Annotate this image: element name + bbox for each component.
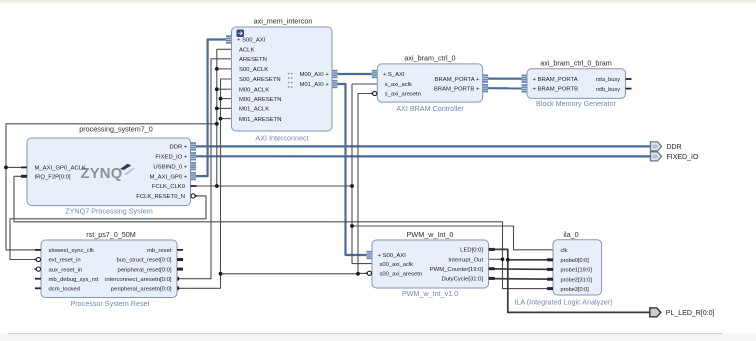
svg-text:ZYNQ: ZYNQ [81,166,123,182]
wire stub M00_ARESETN [221,98,232,100]
pin ARESETN [239,57,267,63]
svg-text:rsta_busy: rsta_busy [596,77,620,83]
wire BRAM_PORTA [488,77,521,79]
pin peripheral_aresetn[0:0] [111,287,172,293]
svg-text:PWM_Counter[19:0]: PWM_Counter[19:0] [430,267,484,273]
pin FCLK_CLK0 [152,184,197,190]
svg-text:M_AXI_GP0 +: M_AXI_GP0 + [149,174,187,180]
junction peripheral_aresetn pin [175,286,180,291]
interface pin M_AXI_GP0 [149,172,196,180]
pin mb_reset [147,248,183,254]
svg-text:ARESETN: ARESETN [239,57,267,63]
junction Interrupt_Out [501,257,505,261]
wire FCLK_CLK0 to ila clk [352,226,553,250]
wire DutyCycle to probe2 [489,278,553,281]
junction M01_ACLK [215,107,219,111]
wire to s_axi_aclk [352,83,377,85]
svg-text:M00_AXI +: M00_AXI + [299,72,329,78]
wire Interrupt_Out stub [489,258,503,260]
wire stub M01_ACLK [217,107,232,109]
pin rstb_busy [596,87,632,93]
junction S00_ACLK [215,67,219,71]
pin IRQ_F2P[0:0] [21,175,71,181]
svg-text:PWM_w_Int_v1.0: PWM_w_Int_v1.0 [402,289,458,298]
wire FCLK_CLK0 mid vertical [351,84,353,264]
wire LED to PL_LED_R [489,249,650,312]
svg-text:FIXED_IO: FIXED_IO [667,154,699,161]
wire stub M01_ARESETN [221,118,232,120]
wire FIXED_IO interface [196,155,651,157]
svg-text:S00_ACLK: S00_ACLK [239,67,268,73]
svg-text:rstb_busy: rstb_busy [596,87,620,93]
svg-text:ila_0: ila_0 [563,230,578,239]
pin clk [561,248,568,254]
svg-text:probe3[0:0]: probe3[0:0] [561,287,590,293]
svg-text:mb_reset: mb_reset [147,248,172,254]
svg-text:aux_reset_in: aux_reset_in [49,267,83,273]
wire to s00_axi_aclk [352,263,372,265]
interface pin DDR [169,142,196,150]
pin s_axi_aclk [385,82,412,88]
svg-text:axi_bram_ctrl_0: axi_bram_ctrl_0 [404,54,455,63]
wire FCLK_RESET0_N to ext_reset_in [10,196,206,260]
svg-text:interconnect_aresetn[0:0]: interconnect_aresetn[0:0] [105,277,172,283]
wire PWM_Counter to probe1 [489,268,553,271]
IP block axi_bram_ctrl_0_bram (Block Memory Generator) [527,59,626,109]
svg-text:slowest_sync_clk: slowest_sync_clk [49,248,95,254]
pin s00_axi_aresetn [366,271,423,277]
interface pin M00_AXI [299,70,337,78]
junction LED probe0 [506,258,510,262]
svg-text:AXI Interconnect: AXI Interconnect [255,134,308,143]
interface pin M01_AXI [299,80,337,88]
svg-text:DutyCycle[31:0]: DutyCycle[31:0] [442,277,484,283]
svg-text:IRQ_F2P[0:0]: IRQ_F2P[0:0] [35,175,71,181]
junction M_AXI_GP0_ACLK [4,166,8,170]
svg-text:peripheral_reset[0:0]: peripheral_reset[0:0] [117,267,171,273]
wire M_AXI_GP0 to S00_AXI (AXI) [196,40,227,177]
pin M01_ARESETN [239,117,282,123]
pin DutyCycle[31:0] [442,277,495,283]
wire stub M_AXI_GP0_ACLK [6,166,27,168]
svg-text:ext_reset_in: ext_reset_in [49,258,81,264]
interface pin FIXED_IO [155,152,196,160]
pin peripheral_reset[0:0] [117,267,183,273]
svg-text:PL_LED_R[0:0]: PL_LED_R[0:0] [666,310,715,317]
svg-text:axi_bram_ctrl_0_bram: axi_bram_ctrl_0_bram [540,59,612,68]
pin rsta_busy [596,77,632,83]
wire FCLK_CLK0 up to ACLK [217,49,232,186]
junction FCLK_CLK0 at x352 [350,184,354,188]
svg-text:Block Memory Generator: Block Memory Generator [536,99,616,108]
svg-text:+ S_AXI: + S_AXI [383,72,405,78]
pin S00_ACLK [239,67,268,73]
svg-text:ILA (Integrated Logic Analyzer: ILA (Integrated Logic Analyzer) [514,298,612,307]
pin S00_ARESETN [239,77,281,83]
pin s00_axi_aclk [380,262,414,268]
interface pin S00_AXI [226,35,266,43]
interface pin BRAM_PORTB gen [522,84,579,92]
junction peripheral_aresetn branch [219,272,223,276]
interface pin BRAM_PORTA ctrl [435,74,488,82]
junction s_axi_aresetn branch [356,272,360,276]
svg-text:+ BRAM_PORTA: + BRAM_PORTA [533,77,578,83]
wire stub S00_ACLK [217,68,232,70]
junction M01_ARESETN [219,117,223,121]
interface pin S00_AXI pwm [367,251,407,259]
svg-text:axi_mem_intercon: axi_mem_intercon [254,17,313,26]
wire Interrupt_Out to IRQ_F2P [14,176,503,259]
svg-text:s00_axi_aresetn: s00_axi_aresetn [380,272,423,278]
wire M00_AXI to S_AXI [338,73,372,75]
svg-text:FCLK_RESET0_N: FCLK_RESET0_N [136,194,185,200]
wire to s_axi_aresetn [358,94,377,274]
svg-text:bus_struct_reset[0:0]: bus_struct_reset[0:0] [116,258,171,264]
svg-text:AXI BRAM Controller: AXI BRAM Controller [396,104,464,113]
pin probe3[0:0] [547,287,589,293]
wire FCLK_CLK0 left loop [6,124,217,250]
svg-text:FCLK_CLK0: FCLK_CLK0 [152,184,186,190]
pin aux_reset_in [35,267,83,273]
svg-text:M_AXI_GP0_ACLK: M_AXI_GP0_ACLK [35,166,86,172]
wire stub M00_ACLK [217,88,232,90]
port DDR [651,142,682,151]
junction clk to ila [350,224,354,228]
svg-text:BRAM_PORTA +: BRAM_PORTA + [435,77,480,83]
grip dots axi_mem_intercon [288,73,293,88]
pin probe0[0:0] [547,258,589,264]
wire Interrupt_Out to probe3 [503,259,554,288]
pin interconnect_aresetn[0:0] [105,277,172,283]
pin probe1[19:0] [547,268,592,274]
svg-text:s_axi_aresetn: s_axi_aresetn [385,92,421,98]
svg-text:BRAM_PORTB +: BRAM_PORTB + [434,86,480,92]
svg-text:LED[0:0]: LED[0:0] [460,248,483,254]
port PL_LED_R[0:0] [650,308,715,317]
pin dcm_locked [35,287,80,293]
IP block rst_ps7_0_50M (Processor System Reset) [41,230,177,308]
interface pin USBIND_0 [153,162,196,170]
svg-text:PWM_w_Int_0: PWM_w_Int_0 [407,230,454,239]
interface pin S_AXI [372,70,405,78]
IP block ila_0 (ILA Integrated Logic Analyzer) [514,230,612,307]
wire peripheral_aresetn branch [221,272,373,274]
wire FCLK_CLK0 trunk [191,185,353,187]
pin M_AXI_GP0_ACLK [21,166,86,172]
IP block axi_mem_intercon (AXI Interconnect) [232,17,333,143]
pin Interrupt_Out [448,258,483,264]
svg-text:mb_debug_sys_rst: mb_debug_sys_rst [49,277,99,283]
svg-text:ACLK: ACLK [239,48,254,54]
IP block PWM_w_Int_0 (PWM_w_Int_v1.0) [372,230,489,298]
svg-text:M00_ARESETN: M00_ARESETN [239,97,282,103]
port FIXED_IO [651,152,699,161]
wire LED to probe0 [508,259,553,261]
svg-text:ZYNQ7 Processing System: ZYNQ7 Processing System [65,207,152,216]
svg-text:M01_ARESETN: M01_ARESETN [239,117,282,123]
svg-text:+ BRAM_PORTB: + BRAM_PORTB [533,87,579,93]
interface pin BRAM_PORTA gen [522,75,578,83]
wire peripheral_aresetn trunk [177,79,232,288]
svg-text:probe0[0:0]: probe0[0:0] [561,258,590,264]
pin PWM_Counter[19:0] [430,267,495,273]
junction clk left loop [215,122,219,126]
pin bus_struct_reset[0:0] [116,258,183,264]
svg-text:probe1[19:0]: probe1[19:0] [561,268,593,274]
pin ext_reset_in [35,257,81,263]
pin M01_ACLK [239,107,269,113]
svg-text:s_axi_aclk: s_axi_aclk [385,82,412,88]
IP block axi_bram_ctrl_0 (AXI BRAM Controller) [377,54,482,114]
interface pin BRAM_PORTB ctrl [434,84,488,92]
junction M00_ARESETN [219,97,223,101]
pin mb_debug_sys_rst [35,277,99,283]
svg-text:peripheral_aresetn[0:0]: peripheral_aresetn[0:0] [111,287,172,293]
svg-text:+ S00_AXI: + S00_AXI [237,38,266,44]
IP block processing_system7_0 (ZYNQ7 Processing System) [27,125,191,216]
svg-text:DDR +: DDR + [169,145,187,151]
svg-text:Processor System Reset: Processor System Reset [70,299,149,308]
pin M00_ARESETN [239,97,282,103]
svg-text:+ S00_AXI: + S00_AXI [378,253,407,259]
svg-text:M00_ACLK: M00_ACLK [239,87,269,93]
pin M00_ACLK [239,87,269,93]
svg-text:M01_ACLK: M01_ACLK [239,107,269,113]
junction FCLK_CLK0 at x217 [215,184,219,188]
svg-text:rst_ps7_0_50M: rst_ps7_0_50M [86,230,136,239]
svg-text:processing_system7_0: processing_system7_0 [79,125,153,134]
ZYNQ logo [81,164,135,183]
svg-text:DDR: DDR [667,144,682,151]
junction interconnect_aresetn pin [175,276,180,281]
pin slowest_sync_clk [35,248,94,254]
wire interconnect_aresetn to ARESETN [177,59,232,279]
svg-text:S00_ARESETN: S00_ARESETN [239,77,281,83]
svg-text:probe2[31:0]: probe2[31:0] [561,277,593,283]
pin LED[0:0] [460,248,494,254]
svg-text:USBIND_0 +: USBIND_0 + [153,164,187,170]
svg-text:clk: clk [561,248,568,254]
wire M01_AXI to PWM S00_AXI [338,84,367,255]
svg-text:M01_AXI +: M01_AXI + [299,82,329,88]
junction M00_ACLK [215,87,219,91]
pin s_axi_aresetn [371,91,421,97]
wire DDR interface [196,145,651,147]
pin FCLK_RESET0_N [136,194,197,200]
svg-text:dcm_locked: dcm_locked [49,287,80,293]
wire BRAM_PORTB [488,87,521,89]
svg-text:FIXED_IO +: FIXED_IO + [155,155,187,161]
pin ACLK [239,48,254,54]
svg-text:s00_axi_aclk: s00_axi_aclk [380,262,414,268]
pin probe2[31:0] [547,277,592,283]
svg-text:Interrupt_Out: Interrupt_Out [448,258,483,264]
svg-text:.: . [125,177,126,183]
collapse button axi_mem_intercon [237,30,245,38]
